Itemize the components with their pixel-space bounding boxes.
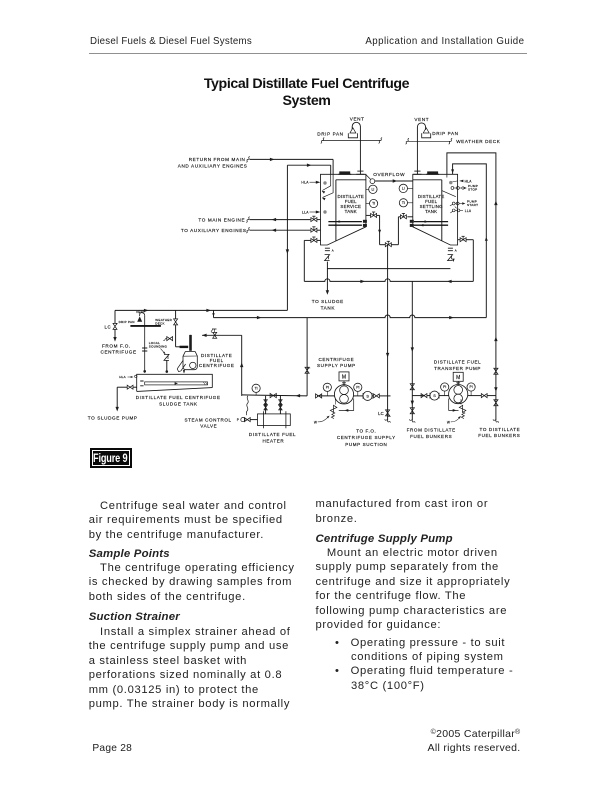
svg-text:TI: TI — [402, 201, 405, 205]
pipe drop to sludge tank line — [326, 262, 329, 295]
svg-text:SUPPLY PUMP: SUPPLY PUMP — [317, 363, 356, 368]
service tank fill pipe diagonals — [321, 174, 333, 200]
tank common drain line with valve V6 — [380, 241, 399, 246]
svg-text:TANK: TANK — [345, 209, 357, 214]
svg-text:M: M — [342, 375, 346, 381]
svg-text:LLA: LLA — [302, 210, 309, 214]
suction strainer supply pump — [363, 391, 372, 400]
supply pump motor — [339, 372, 349, 385]
distillate fuel heater — [258, 411, 291, 428]
label DRIP PAN (service tank) — [317, 132, 343, 137]
svg-text:DRIP PAN: DRIP PAN — [119, 320, 135, 324]
svg-text:OVERFLOW: OVERFLOW — [373, 172, 405, 177]
svg-text:DISTILLATE FUEL: DISTILLATE FUEL — [434, 359, 481, 364]
label DISTILLATE FUEL HEATER — [249, 432, 296, 443]
main suction drop line — [386, 245, 389, 421]
svg-text:TANK: TANK — [321, 306, 336, 311]
svg-text:TRANSFER PUMP: TRANSFER PUMP — [434, 366, 481, 371]
LI level indicator (settling) — [399, 184, 413, 192]
label WEATHER DECK (sludge) — [155, 318, 172, 326]
header left — [90, 36, 252, 47]
label OVERFLOW — [373, 172, 405, 177]
transfer pump discharge header — [447, 153, 498, 396]
svg-text:TO AUXILIARY ENGINES: TO AUXILIARY ENGINES — [181, 228, 247, 233]
svg-text:WEATHER DECK: WEATHER DECK — [456, 139, 501, 144]
to bunkers line — [493, 387, 499, 423]
svg-text:W: W — [447, 421, 450, 425]
svg-text:HEATER: HEATER — [262, 438, 284, 443]
label DISTILLATE FUEL TRANSFER PUMP — [434, 359, 481, 371]
svg-text:LC: LC — [378, 411, 384, 416]
label LC (left) — [104, 324, 111, 329]
svg-text:FUEL BUNKERS: FUEL BUNKERS — [410, 434, 452, 439]
valve V7 settling tank right outlet — [458, 236, 474, 241]
LC valve on from-centrifuge line — [113, 310, 117, 341]
service outlet drop pipe — [378, 215, 381, 244]
svg-text:TO DISTILLATE: TO DISTILLATE — [480, 427, 521, 432]
svg-text:HLA: HLA — [465, 179, 473, 183]
supply pump relief valve — [330, 399, 353, 419]
svg-text:TI: TI — [255, 387, 258, 391]
svg-text:DISTILLATE FUEL: DISTILLATE FUEL — [249, 432, 296, 437]
svg-text:PI: PI — [443, 385, 446, 389]
svg-text:VENT: VENT — [136, 310, 145, 314]
svg-text:TO SLUDGE PUMP: TO SLUDGE PUMP — [88, 415, 138, 420]
valve V17 to-bunkers upper — [494, 368, 498, 374]
service tank overflow funnel — [366, 175, 375, 184]
label TO MAIN ENGINE — [198, 217, 245, 222]
sludge vent drip pan bar — [130, 325, 161, 327]
svg-text:CENTRIFUGE: CENTRIFUGE — [101, 350, 137, 355]
distillate fuel service tank outline — [321, 174, 366, 245]
svg-text:LI: LI — [402, 187, 405, 191]
svg-text:PI: PI — [356, 386, 359, 390]
label DISTILLATE FUEL CENTRIFUGE (machine) — [199, 353, 235, 368]
valve V16 transfer pump discharge — [481, 394, 496, 398]
settling right outlet drop pipe — [472, 240, 474, 282]
page title — [0, 76, 612, 110]
to main engine line — [246, 216, 310, 222]
label VENT (sludge vent) — [136, 310, 145, 314]
valve V18 to-bunkers lower — [494, 400, 498, 406]
settling tank inner wall diagonal — [442, 191, 456, 197]
PI gauge transfer pump right — [467, 383, 475, 396]
svg-text:SLUDGE TANK: SLUDGE TANK — [159, 401, 198, 406]
service tank vent nozzle — [356, 171, 364, 174]
footer copyright — [0, 728, 521, 740]
svg-text:TO SLUDGE: TO SLUDGE — [312, 299, 344, 304]
TI indicator on heater line — [252, 384, 260, 395]
valve V13 supply pump suction — [372, 394, 390, 398]
label VENT (settling tank vent) — [414, 117, 429, 122]
vent gooseneck and drip pan (settling tank) — [417, 123, 430, 174]
label DRIP PAN (sludge) — [119, 320, 135, 324]
svg-text:VENT: VENT — [414, 117, 429, 122]
header rule — [89, 53, 527, 54]
svg-text:RETURN FROM MAIN: RETURN FROM MAIN — [189, 157, 246, 162]
weather deck line (right) — [405, 138, 452, 144]
settling tank drain flanges — [448, 248, 453, 251]
LLA sensor and label (settling) — [450, 209, 472, 213]
svg-text:LLA: LLA — [465, 209, 472, 213]
flow arrow heater line — [296, 394, 301, 397]
settling tank inner wall — [413, 180, 442, 241]
svg-text:PUMP SUCTION: PUMP SUCTION — [345, 442, 387, 447]
svg-text:LI: LI — [371, 188, 374, 192]
service tank top fitting (manhole) — [338, 171, 351, 174]
service tank drain flanges — [325, 248, 330, 251]
svg-text:AND AUXILIARY ENGINES: AND AUXILIARY ENGINES — [178, 164, 248, 169]
valve V15 from-bunkers lower — [410, 408, 414, 414]
svg-text:FROM DISTILLATE: FROM DISTILLATE — [407, 428, 456, 433]
centrifuge discharge into sludge tank — [183, 370, 185, 374]
valve V2 service tank to auxiliary engines — [311, 227, 321, 232]
svg-text:STEAM CONTROL: STEAM CONTROL — [184, 417, 231, 422]
valve V14 from-bunkers upper — [410, 384, 414, 390]
centrifuge outlet control valve — [163, 337, 172, 341]
svg-text:TO F.O.: TO F.O. — [356, 428, 376, 433]
overflow line — [375, 179, 413, 182]
svg-text:A: A — [332, 248, 334, 252]
TI temperature indicator (settling) — [399, 199, 413, 207]
header right — [0, 36, 525, 47]
valve V12 supply pump discharge — [316, 394, 322, 398]
distillate fuel settling tank outline — [413, 174, 458, 245]
weather deck line (left) — [321, 137, 382, 143]
svg-text:FUEL BUNKERS: FUEL BUNKERS — [478, 433, 520, 438]
svg-text:M: M — [456, 375, 460, 381]
drain header line1 — [327, 268, 450, 270]
svg-text:HLA: HLA — [301, 181, 309, 185]
service tank inner wall — [336, 180, 366, 241]
suction strainer transfer pump — [430, 391, 439, 400]
label W with arrow (supply relief) — [314, 415, 330, 425]
LC valve on suction drop — [384, 410, 390, 423]
body text right column — [316, 497, 531, 693]
label LLA with sensor (service) — [302, 210, 327, 214]
svg-text:S: S — [433, 394, 436, 398]
vent gooseneck and drip pan (service tank) — [348, 122, 360, 174]
svg-text:TO MAIN ENGINE: TO MAIN ENGINE — [198, 217, 245, 222]
service tank label — [338, 194, 365, 214]
settling tank vent nozzle — [413, 171, 421, 174]
label A (drain) — [332, 248, 334, 252]
transfer pump motor — [453, 372, 463, 384]
label CENTRIFUGE SUPPLY PUMP — [317, 357, 356, 368]
svg-text:LC: LC — [104, 324, 111, 329]
centrifuge feed riser (thick) — [189, 335, 192, 351]
settling tank drain spectacle blind — [448, 248, 457, 262]
sludge tank heating element — [140, 381, 207, 386]
settling tank fill pipe into tank — [446, 174, 448, 177]
left loop top line — [115, 309, 287, 312]
svg-text:HLA: HLA — [119, 375, 126, 379]
label W with arrow (transfer relief) — [447, 415, 462, 424]
suction header line3 — [214, 315, 487, 319]
sludge tank outlet valve V10 — [117, 385, 137, 389]
label FROM DISTILLATE FUEL BUNKERS — [407, 428, 456, 440]
centrifuge feed line — [190, 334, 241, 337]
label TO SLUDGE PUMP — [88, 415, 138, 420]
valve V9 on centrifuge feed line — [211, 328, 217, 338]
figure 9 label — [90, 448, 133, 469]
heater suction line — [242, 395, 307, 396]
label VENT (service tank vent) — [350, 117, 365, 122]
transfer pump suction line — [412, 394, 430, 398]
label DRIP PAN (settling tank) — [432, 131, 458, 136]
label DISTILLATE FUEL CENTRIFUGE SLUDGE TANK — [136, 395, 221, 406]
centrifuge outlet riser with valve V8 — [174, 310, 178, 346]
svg-text:START: START — [467, 203, 478, 207]
distillate fuel centrifuge machine — [177, 352, 197, 372]
svg-text:VALVE: VALVE — [200, 423, 217, 428]
svg-text:CENTRIFUGE SUPPLY: CENTRIFUGE SUPPLY — [337, 435, 396, 440]
transfer header line2 — [304, 279, 473, 283]
sludge tank vent riser — [137, 313, 147, 373]
label TO DISTILLATE FUEL BUNKERS — [478, 427, 520, 438]
svg-text:SOUNDING: SOUNDING — [149, 345, 168, 349]
svg-text:CENTRIFUGE: CENTRIFUGE — [199, 363, 235, 368]
body text left column — [89, 499, 319, 711]
svg-text:PI: PI — [326, 386, 329, 390]
svg-text:A: A — [455, 248, 457, 252]
label STEAM CONTROL VALVE — [184, 417, 231, 428]
label HLA with sensor (service) — [301, 181, 326, 185]
distillate fuel transfer pump — [439, 385, 481, 404]
svg-text:FROM F.O.: FROM F.O. — [102, 343, 131, 348]
valve V5 settling tank left outlet — [398, 213, 412, 218]
PI gauge transfer pump left — [441, 383, 449, 396]
settling tank top fitting (manhole) — [426, 171, 439, 174]
HLA sensor and label (settling) — [449, 179, 472, 184]
svg-text:DRIP PAN: DRIP PAN — [432, 131, 458, 136]
centrifuge feed drop from heater line — [240, 335, 243, 395]
PI gauge supply pump left — [323, 383, 331, 396]
svg-text:S: S — [366, 394, 369, 398]
valve V4 service tank right outlet — [366, 212, 380, 217]
label TO F.O. CENTRIFUGE SUPPLY PUMP SUCTION — [337, 428, 396, 447]
PUMP START sensor and label (settling) — [450, 199, 478, 208]
branch line into service tank top — [287, 164, 330, 175]
valve V11 heater line — [270, 394, 276, 398]
transfer pump relief valve — [449, 399, 466, 419]
steam control valve assembly — [237, 396, 258, 422]
valve V1 service tank to main engine — [311, 216, 321, 221]
service tank drain spectacle blind — [325, 255, 330, 261]
PI gauge supply pump right — [354, 383, 362, 396]
heater nozzle valves right — [279, 396, 282, 414]
TI temperature indicator (service) — [366, 199, 378, 207]
local sounding pipe with blind — [164, 354, 169, 372]
label WEATHER DECK — [456, 139, 501, 144]
svg-text:W: W — [314, 421, 317, 425]
supply pump suction drop — [305, 318, 310, 396]
centrifuge top connection — [176, 346, 189, 348]
label FROM F.O. CENTRIFUGE — [101, 343, 137, 354]
to auxiliary engines line — [246, 227, 310, 233]
return from engines line — [246, 156, 333, 174]
settling tank heating coil — [410, 220, 448, 227]
svg-text:STOP: STOP — [468, 188, 478, 192]
label LC (suction) — [378, 411, 384, 416]
service tank heating coil — [328, 220, 367, 227]
label TO SLUDGE TANK — [312, 299, 344, 310]
from bunkers riser — [409, 281, 415, 422]
PUMP STOP sensor and label (settling) — [451, 184, 478, 192]
svg-text:PI: PI — [469, 385, 472, 389]
label LOCAL SOUNDING — [149, 341, 168, 355]
settling left outlet drop pipe — [397, 217, 399, 245]
settling tank label — [418, 194, 445, 214]
svg-text:DRIP PAN: DRIP PAN — [317, 132, 343, 137]
svg-text:TI: TI — [372, 202, 375, 206]
centrifuge supply pump — [317, 385, 363, 404]
settling tank fill line from supply header — [451, 164, 488, 318]
svg-text:VENT: VENT — [350, 117, 365, 122]
svg-text:DISTILLATE FUEL CENTRIFUGE: DISTILLATE FUEL CENTRIFUGE — [136, 395, 221, 400]
label RETURN FROM MAIN AND AUXILIARY ENGINES — [178, 157, 248, 168]
svg-text:TANK: TANK — [425, 209, 437, 214]
sludge tank outline — [137, 374, 213, 391]
svg-text:CENTRIFUGE: CENTRIFUGE — [319, 357, 355, 362]
pipe from valve V3 down to transfer header — [303, 240, 305, 281]
footer page number — [92, 743, 132, 754]
sludge pump line — [116, 387, 119, 411]
jog from left loop to line3 — [212, 310, 215, 317]
valve V3 service tank lower outlet — [304, 237, 320, 242]
label HLA (sludge tank) — [119, 375, 137, 379]
svg-text:P: P — [237, 418, 239, 422]
heater nozzle valves left — [264, 396, 267, 414]
svg-text:DECK: DECK — [155, 322, 164, 326]
LI level indicator (service) — [366, 185, 377, 193]
left main vertical pipe — [286, 165, 289, 310]
label TO AUXILIARY ENGINES — [181, 228, 247, 233]
